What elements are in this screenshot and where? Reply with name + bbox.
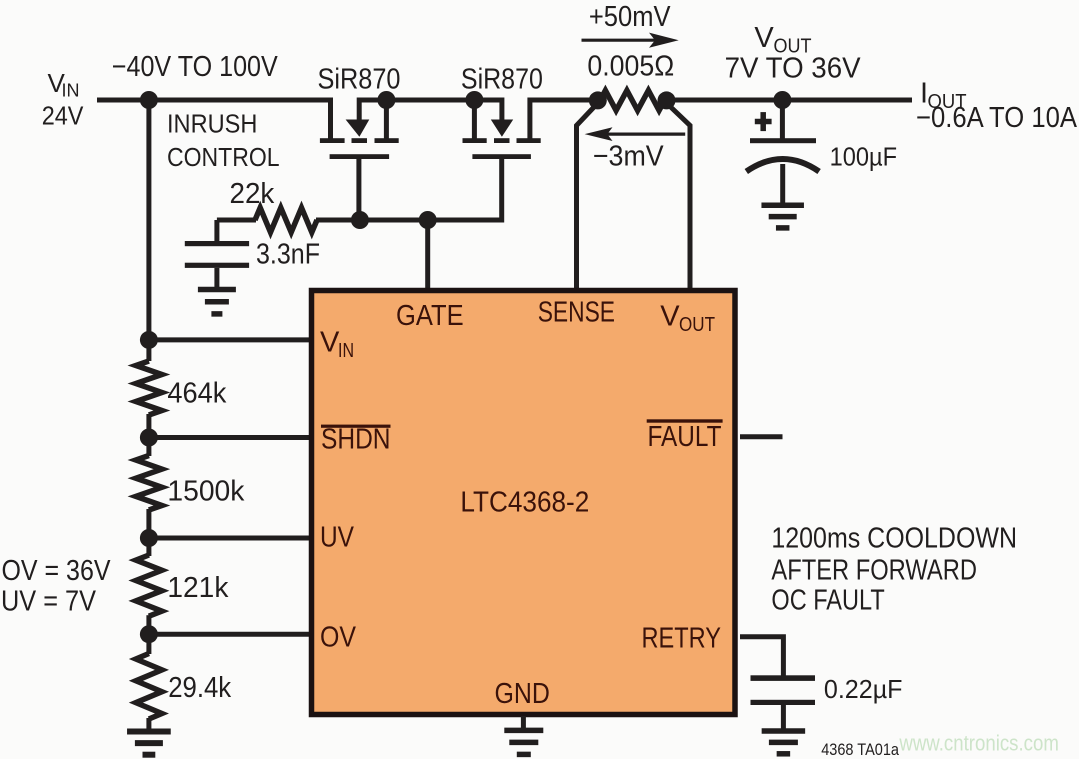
svg-text:OV = 36V: OV = 36V [2, 555, 112, 587]
node divider dot VIN pin [140, 331, 158, 349]
ground for C1 [198, 287, 236, 293]
resistor R6 0.005 ohm sense [600, 90, 665, 110]
resistor R3 121k [136, 555, 162, 616]
wire M1 source lead from node [384, 100, 389, 139]
wire SHDN pin connection [149, 435, 312, 440]
wire UV pin connection [149, 536, 312, 541]
wire output rail [664, 98, 912, 103]
svg-text:−3mV: −3mV [593, 140, 664, 172]
svg-text:OC FAULT: OC FAULT [771, 585, 885, 617]
svg-text:V: V [660, 301, 680, 333]
svg-text:GATE: GATE [396, 300, 464, 332]
arrow +50mV current direction [582, 39, 656, 42]
svg-text:4368 TA01a: 4368 TA01a [821, 741, 900, 759]
svg-text:www.cntronics.com: www.cntronics.com [899, 731, 1059, 756]
node divider dot OV pin [140, 625, 158, 643]
resistor R5 22k [255, 208, 317, 233]
svg-text:0.22µF: 0.22µF [824, 674, 903, 704]
svg-text:OV: OV [320, 622, 357, 654]
wire C3 ground lead [781, 705, 786, 731]
svg-text:1200ms COOLDOWN: 1200ms COOLDOWN [771, 522, 1017, 554]
svg-text:OUT: OUT [679, 314, 715, 336]
wire top rail between MOSFET body diodes [359, 100, 502, 122]
node divider dot UV pin [140, 529, 158, 547]
svg-text:3.3nF: 3.3nF [256, 239, 320, 271]
node VIN junction dot [140, 91, 158, 109]
svg-text:INRUSH: INRUSH [167, 108, 257, 138]
wire RETRY pin to C3 [740, 637, 783, 676]
svg-text:IN: IN [62, 80, 80, 101]
wire VIN pin connection [149, 337, 312, 342]
svg-text:1500k: 1500k [167, 475, 244, 507]
svg-text:CONTROL: CONTROL [167, 142, 280, 172]
node M2 source / rail junction dot [465, 91, 483, 109]
svg-text:FAULT: FAULT [648, 421, 722, 453]
wire M2 source lead from node [472, 100, 477, 139]
svg-text:UV: UV [320, 522, 355, 554]
svg-text:V: V [754, 22, 774, 54]
wire GND pin lead [521, 716, 526, 730]
wire gate row [316, 218, 502, 223]
wire FAULT pin stub [740, 434, 783, 439]
transistor Q1 SiR870 MOSFET (pads, body diode, gate) [320, 138, 345, 143]
svg-text:29.4k: 29.4k [168, 672, 231, 704]
svg-text:121k: 121k [167, 572, 228, 604]
svg-text:V: V [320, 327, 340, 359]
svg-text:7V TO 36V: 7V TO 36V [725, 53, 862, 85]
svg-text:24V: 24V [42, 100, 84, 130]
wire kelvin VOUT connection [667, 103, 691, 291]
transistor Q2 SiR870 MOSFET (pads, body diode, gate) [463, 138, 487, 143]
svg-text:SiR870: SiR870 [318, 64, 401, 96]
label + polarity of C2 [755, 119, 772, 125]
wire divider ground lead [146, 718, 151, 732]
wire 100uF bottom lead [780, 164, 785, 206]
node divider dot SHDN pin [140, 429, 158, 447]
wire 100uF top lead [780, 100, 785, 141]
svg-text:100µF: 100µF [830, 142, 897, 172]
svg-text:GND: GND [495, 678, 550, 710]
node gate row dot at Q1 gate [351, 211, 369, 229]
ground for C3 [762, 728, 806, 734]
wire kelvin SENSE connection [577, 103, 598, 291]
svg-text:+50mV: +50mV [589, 1, 671, 33]
ground for GND pin [504, 728, 543, 734]
svg-text:RETRY: RETRY [642, 623, 722, 655]
wire M2 drain to sense resistor [530, 100, 601, 139]
wire 3.3nF bottom lead [214, 268, 219, 291]
wire divider segment 2 [146, 414, 151, 456]
ground for divider [127, 729, 171, 735]
svg-text:SENSE: SENSE [538, 297, 615, 329]
node sense right dot [658, 91, 676, 109]
wire GATE pin lead [425, 220, 430, 291]
wire VIN divider column segment 1 [146, 100, 151, 361]
svg-text:AFTER FORWARD: AFTER FORWARD [771, 555, 977, 587]
arrow -3mV reverse direction [606, 133, 685, 136]
svg-text:UV = 7V: UV = 7V [1, 586, 97, 618]
ground for C2 [761, 203, 804, 209]
svg-text:464k: 464k [167, 378, 226, 410]
resistor R1 464k [136, 361, 162, 415]
svg-text:LTC4368-2: LTC4368-2 [460, 487, 589, 519]
wire divider segment 3 [146, 509, 151, 556]
op-amp U1 LTC4368-2 body [312, 291, 736, 715]
node sense left dot [589, 91, 607, 109]
wire 3.3nF top lead [214, 220, 219, 244]
wire 22k left lead [217, 218, 256, 223]
resistor R2 1500k [136, 456, 162, 511]
svg-text:−0.6A TO 10A: −0.6A TO 10A [916, 102, 1078, 134]
node M1 source / rail junction dot [377, 91, 395, 109]
svg-text:−40V TO 100V: −40V TO 100V [112, 51, 279, 83]
capacitor C1 3.3nF plates [185, 241, 249, 246]
node VOUT output dot [773, 91, 791, 109]
capacitor C3 0.22uF plates [751, 675, 816, 681]
svg-text:SHDN: SHDN [321, 424, 391, 456]
svg-text:22k: 22k [230, 178, 275, 210]
node gate row dot at GATE pin [419, 211, 437, 229]
capacitor C2 100uF polarized [750, 138, 816, 143]
wire divider segment 4 [146, 615, 151, 654]
wire VIN input feed to M1 drain [97, 100, 331, 139]
resistor R4 29.4k [136, 654, 162, 720]
svg-text:0.005Ω: 0.005Ω [587, 51, 674, 83]
svg-text:SiR870: SiR870 [461, 64, 543, 96]
wire OV pin connection [149, 632, 312, 637]
svg-text:IN: IN [338, 340, 354, 362]
